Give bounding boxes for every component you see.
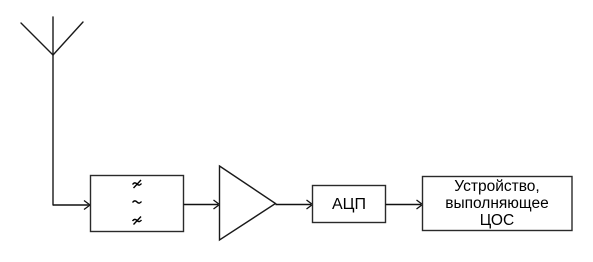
wire filter to amplifier	[184, 204, 219, 206]
filter symbol crossed tilde bottom	[133, 217, 142, 225]
arrowhead into amplifier	[214, 200, 220, 209]
antenna A1	[21, 17, 83, 205]
wire ADC to DSP device	[386, 204, 422, 206]
DSP device box	[423, 177, 573, 231]
filter symbol crossed tilde top	[133, 180, 142, 188]
svg-text:ЦОС: ЦОС	[480, 212, 514, 229]
arrowhead into filter	[84, 201, 90, 210]
arrowhead into ADC	[307, 200, 313, 209]
svg-text:АЦП: АЦП	[332, 196, 366, 213]
antenna mast wire	[52, 17, 54, 205]
amplifier U1 triangle	[220, 166, 276, 240]
arrowhead into DSP device	[417, 200, 423, 209]
band-pass filter Z1 box	[91, 176, 184, 232]
ADC box АЦП	[313, 186, 386, 223]
wire amplifier to ADC	[276, 204, 312, 206]
antenna right arm	[53, 22, 83, 55]
filter symbol plain tilde middle	[133, 201, 142, 203]
antenna left arm	[21, 23, 53, 55]
wire antenna to filter	[53, 204, 89, 206]
svg-text:Устройство,: Устройство,	[454, 178, 539, 195]
label Устройство, выполняющее ЦОС	[445, 178, 549, 229]
svg-text:выполняющее: выполняющее	[445, 195, 549, 212]
